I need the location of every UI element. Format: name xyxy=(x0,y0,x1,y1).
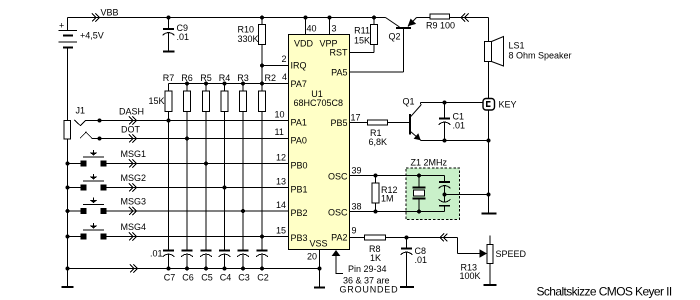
svg-text:C4: C4 xyxy=(220,273,232,283)
svg-text:R6: R6 xyxy=(181,73,193,83)
svg-text:20: 20 xyxy=(307,252,317,262)
svg-text:17: 17 xyxy=(351,113,361,123)
svg-text:.01: .01 xyxy=(453,121,466,131)
wire column R2 xyxy=(261,112,263,251)
svg-text:R11: R11 xyxy=(354,26,370,36)
svg-text:.01: .01 xyxy=(415,255,428,265)
svg-text:OSC: OSC xyxy=(328,172,348,182)
pin 4 xyxy=(282,72,287,82)
pin 17 xyxy=(351,113,361,123)
wire R8 to speed pot xyxy=(386,234,480,254)
node DASH xyxy=(119,107,144,125)
wire VSS pin 20 xyxy=(307,250,322,288)
transistor Q2 xyxy=(386,18,417,73)
svg-text:Schaltskizze CMOS Keyer II: Schaltskizze CMOS Keyer II xyxy=(537,285,672,299)
ground below R13 xyxy=(484,284,497,286)
capacitor C7 xyxy=(163,251,176,283)
capacitor load bottom inside Z1 xyxy=(439,195,451,212)
svg-text:R7: R7 xyxy=(163,73,175,83)
pin 2 xyxy=(282,54,287,64)
speaker LS1 8 Ohm xyxy=(485,37,572,67)
svg-text:C6: C6 xyxy=(182,273,194,283)
pin 38 xyxy=(352,202,362,212)
svg-text:DOT: DOT xyxy=(121,125,141,135)
svg-text:VDD: VDD xyxy=(294,39,314,49)
wire R9 to speaker xyxy=(450,14,489,42)
pushbutton S1 MSG1 xyxy=(66,150,107,166)
svg-text:330K: 330K xyxy=(237,34,258,44)
svg-text:IRQ: IRQ xyxy=(291,61,307,71)
svg-text:+4,5V: +4,5V xyxy=(80,31,104,41)
svg-text:+: + xyxy=(59,21,64,31)
capacitor C3 xyxy=(237,251,250,283)
svg-text:1M: 1M xyxy=(381,194,394,204)
svg-text:38: 38 xyxy=(352,202,362,212)
svg-text:PB1: PB1 xyxy=(291,185,308,195)
capacitor C4 xyxy=(219,251,232,283)
svg-text:68HC705C8: 68HC705C8 xyxy=(294,98,344,108)
svg-text:C3: C3 xyxy=(238,273,250,283)
op-amp U1 68HC705C8 MCU body xyxy=(289,35,350,250)
svg-text:J1: J1 xyxy=(76,106,86,116)
svg-text:C2: C2 xyxy=(257,273,269,283)
resistor network value 15K xyxy=(148,96,164,106)
wire RST xyxy=(350,45,375,53)
capacitor load top inside Z1 xyxy=(439,176,451,195)
node MSG2 xyxy=(121,173,147,192)
pin 10 xyxy=(275,110,285,120)
ground below KEY xyxy=(482,213,497,215)
capacitor C8 .01 xyxy=(401,238,428,287)
svg-text:15K: 15K xyxy=(148,96,164,106)
svg-text:15: 15 xyxy=(276,226,286,236)
svg-text:MSG2: MSG2 xyxy=(121,173,147,183)
wire pull-up rail to PA7 xyxy=(169,83,289,85)
pin 14 xyxy=(276,200,286,210)
capacitor C6 xyxy=(181,251,194,283)
svg-text:40: 40 xyxy=(307,24,317,34)
pushbutton S4 MSG4 xyxy=(66,223,107,239)
node MSG4 xyxy=(121,222,147,241)
wire PA5 to Q2 base xyxy=(350,71,404,73)
svg-text:1K: 1K xyxy=(370,253,381,263)
svg-text:9: 9 xyxy=(352,226,357,236)
svg-text:R5: R5 xyxy=(200,73,212,83)
svg-text:Pin 29-34: Pin 29-34 xyxy=(348,264,387,274)
resistor R9 100 xyxy=(417,14,456,31)
battery +4,5V xyxy=(59,18,104,121)
svg-text:R2: R2 xyxy=(265,73,277,83)
svg-text:PA5: PA5 xyxy=(331,68,347,78)
wire speaker to KEY xyxy=(488,62,490,99)
pushbutton S3 MSG3 xyxy=(66,198,107,214)
svg-text:MSG1: MSG1 xyxy=(121,149,147,159)
pin 12 xyxy=(276,153,286,163)
resistor R6 xyxy=(181,73,193,112)
svg-text:10: 10 xyxy=(275,110,285,120)
node MSG1 xyxy=(121,149,147,168)
svg-text:KEY: KEY xyxy=(499,100,517,110)
note grounded pins arrow xyxy=(332,250,399,295)
wire ground rail xyxy=(66,265,320,273)
value .01 for C2-C7 xyxy=(150,249,163,259)
svg-text:Q2: Q2 xyxy=(389,32,401,42)
node DOT xyxy=(121,125,141,143)
svg-text:11: 11 xyxy=(275,127,284,137)
wire resonator tap to ground xyxy=(443,193,489,197)
wire VBB power rail xyxy=(68,17,386,19)
wire Q1 emitter line xyxy=(421,139,489,143)
svg-text:2: 2 xyxy=(282,54,287,64)
wire R10 to IRQ and rail xyxy=(260,45,289,86)
resistor R5 xyxy=(200,73,212,112)
svg-text:R4: R4 xyxy=(219,73,231,83)
wire column R7 xyxy=(168,112,170,251)
svg-text:14: 14 xyxy=(276,200,286,210)
wire DASH xyxy=(98,119,289,123)
svg-text:.01: .01 xyxy=(177,32,190,42)
wire OSC pin 38 xyxy=(350,210,445,214)
svg-text:VSS: VSS xyxy=(310,239,328,249)
resistor R10 330K xyxy=(237,16,265,45)
ground below VSS xyxy=(314,287,325,289)
wire KEY down to ground xyxy=(487,110,491,213)
pin 3 VPP xyxy=(328,16,337,35)
resistor R4 xyxy=(219,73,231,112)
wire column R4 xyxy=(224,112,226,251)
node VBB xyxy=(92,8,119,22)
svg-text:4: 4 xyxy=(282,72,287,82)
resistor R12 1M xyxy=(372,176,398,212)
pin 15 xyxy=(276,226,286,236)
resistor R7 xyxy=(163,73,175,112)
wire R1 to Q1 base xyxy=(388,122,409,124)
pushbutton S2 MSG2 xyxy=(66,174,107,190)
svg-text:8 Ohm Speaker: 8 Ohm Speaker xyxy=(509,51,572,61)
svg-text:C5: C5 xyxy=(201,273,213,283)
svg-text:PB2: PB2 xyxy=(291,208,308,218)
svg-text:13: 13 xyxy=(276,177,286,187)
potentiometer R13 100K SPEED xyxy=(460,236,527,285)
svg-text:MSG3: MSG3 xyxy=(121,197,147,207)
svg-text:PA1: PA1 xyxy=(291,118,307,128)
svg-text:Q1: Q1 xyxy=(403,97,415,107)
wire DOT xyxy=(98,137,289,141)
svg-text:PB5: PB5 xyxy=(330,118,347,128)
capacitor C5 xyxy=(200,251,213,283)
svg-text:PB3: PB3 xyxy=(291,233,308,243)
svg-text:MSG4: MSG4 xyxy=(121,222,147,232)
svg-text:PA7: PA7 xyxy=(291,79,307,89)
wire MSG3 xyxy=(106,209,288,213)
svg-text:PB0: PB0 xyxy=(291,161,308,171)
pin 11 xyxy=(275,127,284,137)
crystal X1 inside Z1 xyxy=(413,176,426,212)
wire MSG2 xyxy=(106,186,288,190)
svg-text:.01: .01 xyxy=(150,249,163,259)
svg-text:R9 100: R9 100 xyxy=(426,21,455,31)
resistor R1 6,8K xyxy=(350,120,388,147)
resistor R8 1K xyxy=(350,235,386,263)
resistor R3 xyxy=(237,73,249,112)
ground left xyxy=(62,286,74,288)
svg-text:OSC: OSC xyxy=(328,208,348,218)
svg-text:RST: RST xyxy=(330,48,349,58)
svg-text:SPEED: SPEED xyxy=(496,249,527,259)
svg-text:R3: R3 xyxy=(237,73,249,83)
pin 9 xyxy=(352,226,357,236)
connector KEY xyxy=(483,99,517,111)
svg-text:Z1 2MHz: Z1 2MHz xyxy=(411,158,448,168)
ground below C8 xyxy=(400,286,414,288)
svg-text:DASH: DASH xyxy=(119,107,144,117)
pin 39 xyxy=(352,166,362,176)
transistor Q1 xyxy=(403,97,422,141)
svg-text:3: 3 xyxy=(332,24,337,34)
pin 13 xyxy=(276,177,286,187)
wire column R6 xyxy=(186,112,188,251)
wire MSG1 xyxy=(106,162,288,166)
svg-text:6,8K: 6,8K xyxy=(369,137,388,147)
capacitor C1 .01 xyxy=(439,103,466,141)
svg-text:39: 39 xyxy=(352,166,362,176)
resistor R11 15K xyxy=(354,16,378,46)
capacitor C2 xyxy=(256,251,269,283)
svg-text:GROUNDED: GROUNDED xyxy=(340,285,399,295)
node MSG3 xyxy=(121,197,147,216)
svg-text:100K: 100K xyxy=(460,271,481,281)
wire OSC pin 39 xyxy=(350,174,445,178)
svg-text:PA2: PA2 xyxy=(331,233,347,243)
svg-text:15K: 15K xyxy=(354,36,370,46)
svg-text:LS1: LS1 xyxy=(509,41,525,51)
wire column R3 xyxy=(242,112,244,251)
svg-text:12: 12 xyxy=(276,153,286,163)
wire column R5 xyxy=(205,112,207,251)
resonator Z1 2MHz box xyxy=(406,158,460,220)
svg-text:PA0: PA0 xyxy=(291,136,307,146)
wire Q1 collector to KEY xyxy=(421,101,484,106)
resistor R2 xyxy=(259,73,277,112)
title xyxy=(537,285,672,299)
svg-text:VBB: VBB xyxy=(101,8,119,18)
svg-text:C7: C7 xyxy=(164,273,176,283)
capacitor C9 .01 xyxy=(163,16,190,52)
svg-text:R10: R10 xyxy=(237,25,254,35)
pin 40 VDD xyxy=(304,16,317,35)
connector J1 paddle jack xyxy=(64,106,100,287)
wire MSG4 xyxy=(106,235,288,239)
